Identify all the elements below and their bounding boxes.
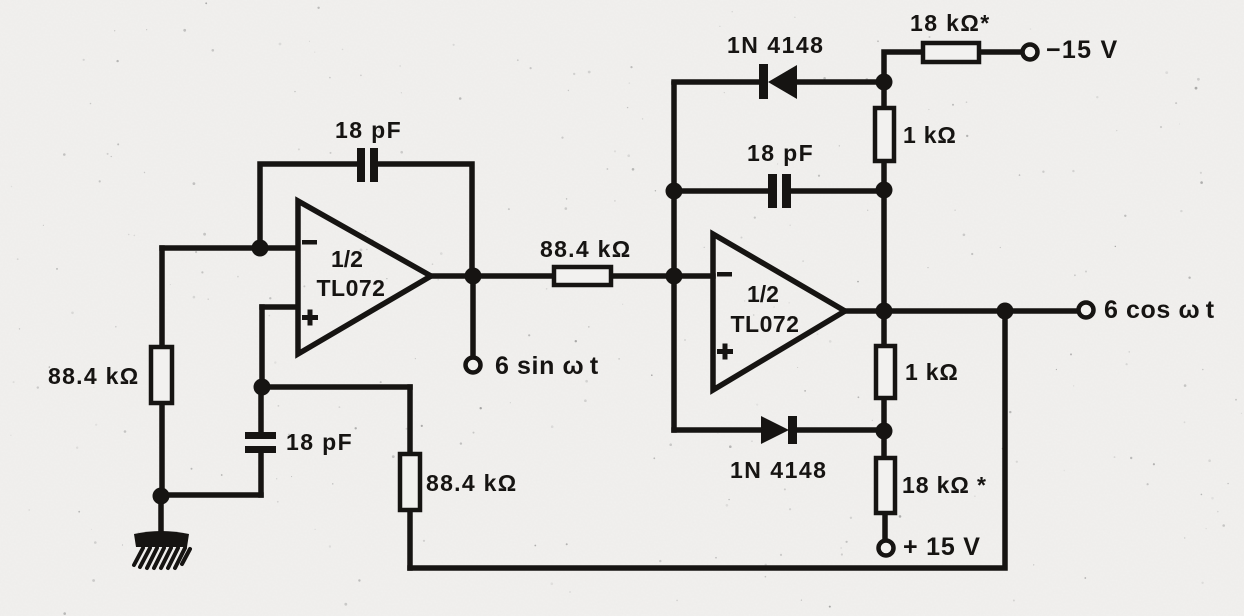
terminal: -15V supply xyxy=(1023,45,1038,60)
wire: output row of op-amp B xyxy=(846,308,1077,314)
op-amp U1b plus sign xyxy=(717,344,733,360)
wire: op-amp B left column xyxy=(671,84,677,430)
node: diode D1 right junction xyxy=(876,74,893,91)
wire: 18k lower to +15V terminal xyxy=(882,513,888,539)
svg-text:TL072: TL072 xyxy=(731,311,800,337)
resistor R6 1k body (lower right vertical) xyxy=(876,346,895,398)
capacitor C1 18pF plates (top feedback of U1a) xyxy=(357,148,378,182)
wire: middle resistor column upper xyxy=(407,387,413,454)
svg-text:88.4 kΩ: 88.4 kΩ xyxy=(540,236,632,262)
wire: right column between top junction and 1k xyxy=(881,82,887,108)
svg-text:18 kΩ*: 18 kΩ* xyxy=(910,10,991,36)
resistor R3 88.4k body (middle bottom vertical) xyxy=(400,454,420,510)
node: U1a inverting input junction xyxy=(252,240,269,257)
node: cap C3 left junction xyxy=(666,183,683,200)
svg-text:TL072: TL072 xyxy=(317,275,386,301)
wire: diode D2 row left xyxy=(674,427,761,433)
op-amp U1b body xyxy=(713,234,845,390)
wire: series resistor to op-amp B inverting node xyxy=(611,273,713,279)
svg-text:1N 4148: 1N 4148 xyxy=(727,32,824,58)
wire: ground junction to bottom-left row xyxy=(161,492,261,498)
wire: cap C2 column above plates xyxy=(258,387,264,433)
svg-text:1/2: 1/2 xyxy=(331,246,363,272)
svg-text:+ 15 V: + 15 V xyxy=(903,533,981,561)
diode D2 1N4148 (points right) xyxy=(761,416,797,444)
node: U1a output junction xyxy=(465,268,482,285)
op-amp U1a body xyxy=(298,201,431,354)
wire: left column from inverting row down to resistor xyxy=(159,248,165,347)
wire: right column between output and 1k lower xyxy=(881,311,887,346)
svg-text:1/2: 1/2 xyxy=(747,281,779,307)
terminal: +15V supply xyxy=(879,541,894,556)
resistor R5 1k body (upper right vertical) xyxy=(875,108,894,161)
wire: right column between 1k and cap node xyxy=(881,161,887,191)
svg-text:18 pF: 18 pF xyxy=(286,429,353,455)
capacitor C3 18pF plates (feedback of U1b) xyxy=(768,174,791,208)
wire: right column between diode node and 18k lower xyxy=(881,431,887,458)
svg-text:1 kΩ: 1 kΩ xyxy=(903,122,957,148)
capacitor C2 18pF plates (left, horizontal) xyxy=(245,432,276,453)
node: diode D2 right junction xyxy=(876,423,893,440)
wire: output column down to sine terminal xyxy=(470,276,476,356)
wire: cap C3 row left xyxy=(674,188,768,194)
wire: feedback riser from inverting node up to cap row xyxy=(260,164,357,248)
wire: -15V resistor to terminal xyxy=(979,49,1021,55)
wire: right column top corner to -15V resistor xyxy=(884,52,923,82)
node: U1b inverting input junction xyxy=(666,268,683,285)
svg-text:1 kΩ: 1 kΩ xyxy=(905,359,959,385)
resistor R7 18k body (bottom right vertical) xyxy=(876,458,895,513)
resistor R1 88.4k body (left vertical) xyxy=(151,347,172,403)
terminal: 6 sin output xyxy=(466,358,481,373)
wire: diode D2 row right xyxy=(796,427,884,433)
op-amp U1b minus sign xyxy=(717,272,732,277)
wire: right column between 1k lower and diode node xyxy=(881,398,887,431)
svg-text:88.4 kΩ: 88.4 kΩ xyxy=(426,470,518,496)
op-amp U1a minus sign xyxy=(302,240,317,245)
wire: diode D1 row left xyxy=(674,79,760,85)
diode D1 1N4148 (points left) xyxy=(759,64,797,99)
wire: op-amp A output row to series resistor xyxy=(432,273,554,279)
wire: non-inverting input of op-amp A xyxy=(262,304,297,310)
node: ground junction xyxy=(153,488,170,505)
resistor R2 88.4k body (series horizontal) xyxy=(554,267,611,285)
svg-text:18 pF: 18 pF xyxy=(747,140,814,166)
svg-text:88.4 kΩ: 88.4 kΩ xyxy=(48,363,140,389)
wire: diode D1 row right xyxy=(797,79,884,85)
svg-text:6 sin ω t: 6 sin ω t xyxy=(495,352,599,380)
wire: cap row to output column xyxy=(378,164,472,276)
wire: ground stem xyxy=(158,496,164,534)
svg-text:−15 V: −15 V xyxy=(1046,36,1119,64)
node: non-inverting feedback junction xyxy=(254,379,271,396)
svg-text:6 cos ω t: 6 cos ω t xyxy=(1104,296,1215,324)
wire: long bottom feedback row xyxy=(410,311,1005,568)
wire: feedback node to middle resistor column xyxy=(262,384,410,390)
terminal: 6 cos output xyxy=(1079,303,1094,318)
op-amp U1a plus sign xyxy=(302,310,318,326)
svg-text:18 pF: 18 pF xyxy=(335,117,402,143)
wire: cap C3 row right xyxy=(790,188,884,194)
wire: middle resistor column lower to long bottom row xyxy=(407,510,413,568)
node: U1b output junction xyxy=(876,303,893,320)
node: bottom feedback junction xyxy=(997,303,1014,320)
wire: non-inverting column down to feedback node xyxy=(259,307,265,387)
node: cap C3 right junction xyxy=(876,182,893,199)
ground symbol xyxy=(134,531,189,547)
svg-text:18 kΩ *: 18 kΩ * xyxy=(902,472,987,498)
wire: op-amp A inverting input row xyxy=(162,245,297,251)
resistor R4 18k body (top horizontal) xyxy=(923,43,979,62)
wire: cap C2 column below plates to bottom-left row xyxy=(258,453,264,495)
svg-text:1N 4148: 1N 4148 xyxy=(730,457,827,483)
wire: right column between cap node and output row xyxy=(881,191,887,311)
wire: left resistor bottom to ground junction xyxy=(159,403,165,496)
